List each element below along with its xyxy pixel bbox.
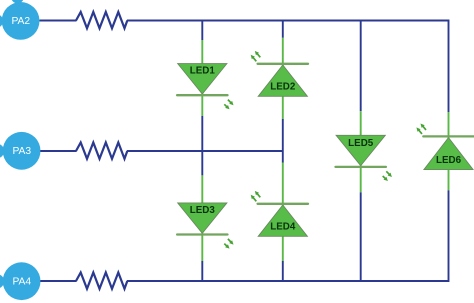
- LED1 (anode top, cathode bottom): [177, 64, 233, 110]
- wire column A: LED1 anode lead (green): [201, 40, 203, 95]
- LED4 (anode bottom, cathode top): [251, 191, 308, 236]
- wire column B: mid row to LED4 cathode (blue): [282, 151, 284, 163]
- wire column D: top row corner to LED6 cathode (blue): [448, 20, 450, 113]
- svg-text:LED3: LED3: [190, 205, 216, 216]
- wire column A: mid row to LED3 anode (blue): [201, 151, 203, 175]
- resistor on PA4 line: [76, 273, 127, 289]
- LED2 (anode bottom, cathode top): [251, 51, 308, 96]
- node PA4 (pin circle): [0, 262, 41, 300]
- svg-text:LED5: LED5: [348, 138, 374, 149]
- resistor on PA3 line: [76, 143, 127, 159]
- wire PA4 row: resistor to bottom-right corner: [127, 280, 449, 282]
- svg-text:PA2: PA2: [11, 16, 30, 27]
- LED3 (anode top, cathode bottom): [177, 203, 233, 249]
- wire column B: LED4 anode to bottom row (blue): [282, 261, 284, 281]
- LED6 (anode bottom, cathode top): [416, 124, 473, 170]
- wire column B: top row to LED2 cathode (blue): [282, 21, 284, 38]
- wire PA3 to resistor: [40, 150, 76, 152]
- wire column D: LED6 leads (green): [448, 112, 450, 190]
- wire column A: LED3 leads (green): [201, 175, 203, 261]
- node PA2 (pin circle): [0, 0, 40, 40]
- wire column C: top row to LED5 (blue): [360, 21, 362, 112]
- wire column C: LED5 cathode to bottom row (blue): [360, 192, 362, 281]
- node PA3 (pin circle): [0, 132, 41, 170]
- wire column B: LED2 leads (green): [282, 38, 284, 119]
- svg-text:LED6: LED6: [436, 155, 462, 166]
- svg-text:PA4: PA4: [12, 277, 31, 288]
- wire column A: LED1 cathode lead (green): [201, 95, 203, 116]
- svg-text:PA3: PA3: [12, 146, 31, 157]
- wire column C: LED5 leads (green): [360, 111, 362, 192]
- LED5 (anode top, cathode bottom): [336, 135, 392, 181]
- wire column D: LED6 anode to bottom row (blue): [448, 190, 450, 282]
- wire column B: LED2 anode to mid row (blue): [282, 119, 284, 151]
- wire PA3 row: resistor to LED2/LED4 column: [127, 150, 283, 152]
- wire column B: LED4 leads (green): [282, 163, 284, 262]
- resistor on PA2 line: [76, 12, 127, 28]
- wire column A: LED3 cathode to bottom row (blue): [201, 261, 203, 281]
- wire PA2 row: resistor to top-right corner: [127, 20, 449, 22]
- svg-text:LED4: LED4: [270, 221, 296, 232]
- wire column A: LED1 cathode to mid row (blue): [201, 116, 203, 151]
- svg-text:LED2: LED2: [270, 81, 296, 92]
- svg-text:LED1: LED1: [190, 66, 216, 77]
- wire PA4 to resistor: [40, 280, 76, 282]
- wire PA2 to resistor: [40, 20, 77, 22]
- wire column A: top row to LED1 anode (blue): [201, 21, 203, 41]
